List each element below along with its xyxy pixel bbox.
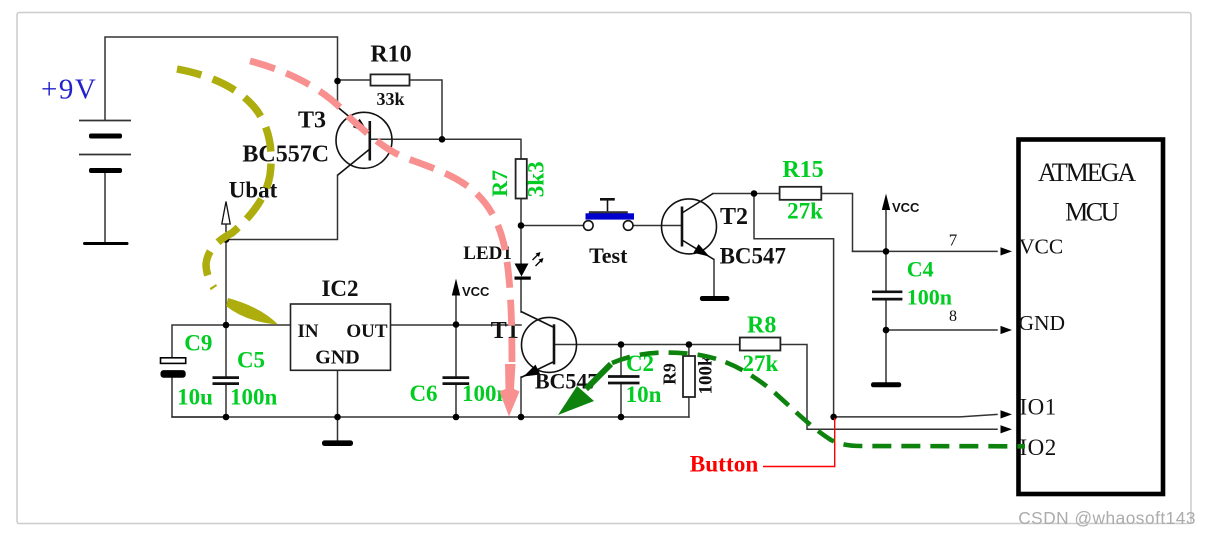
- svg-text:10u: 10u: [177, 385, 213, 410]
- capacitor C9: [161, 358, 186, 378]
- svg-text:C5: C5: [237, 348, 265, 373]
- svg-text:27k: 27k: [743, 351, 779, 376]
- svg-text:8: 8: [949, 308, 957, 325]
- svg-text:C6: C6: [409, 381, 437, 406]
- capacitor C6: [443, 378, 470, 384]
- label R7: [487, 170, 512, 197]
- wire C9 bottom: [172, 378, 225, 417]
- MCU box ATMEGA: [1019, 140, 1164, 495]
- svg-text:10n: 10n: [626, 382, 662, 407]
- svg-text:R7: R7: [487, 170, 512, 197]
- wire C6 bottom: [455, 385, 457, 417]
- node dot T3 emitter rail: [334, 78, 341, 85]
- ground below C4: [871, 382, 901, 387]
- pin arrow IO1: [1001, 410, 1013, 418]
- olive arrowhead: [226, 298, 278, 325]
- svg-text:R9: R9: [660, 363, 680, 385]
- transistor T2: [662, 194, 717, 260]
- wire C6 vcc arrow stem: [455, 295, 457, 325]
- node GND junction: [883, 327, 890, 334]
- capacitor C4: [872, 292, 902, 299]
- wire C4 bottom: [885, 301, 887, 331]
- resistor R10: [371, 74, 410, 85]
- wire T2 collector to R15: [713, 193, 780, 195]
- wire IC2 GND down: [337, 370, 339, 440]
- wire R15 right to VCC node: [821, 194, 886, 252]
- svg-text:BC557C: BC557C: [242, 142, 329, 168]
- junction IC2 GND rail: [334, 414, 341, 421]
- resistor R7: [516, 159, 527, 199]
- svg-text:Test: Test: [589, 243, 628, 268]
- node VCC junction: [883, 248, 890, 255]
- junction C6 bottom rail: [453, 414, 460, 421]
- wire VCC arrow stem at C4: [885, 206, 887, 251]
- junction C2 bottom rail: [618, 414, 625, 421]
- resistor R15: [780, 187, 822, 200]
- svg-text:100n: 100n: [907, 285, 952, 310]
- wire battery bottom lead: [104, 172, 106, 243]
- pin arrow IO2: [1001, 425, 1013, 433]
- svg-text:100k: 100k: [696, 355, 717, 395]
- wire VCC pin line: [853, 250, 998, 252]
- wire T3 base to R7 top: [370, 139, 521, 159]
- node R9 top junction: [686, 341, 693, 348]
- svg-text:27k: 27k: [787, 199, 823, 224]
- wire node R7 to Test button: [521, 225, 584, 227]
- svg-text:ATMEGA: ATMEGA: [1038, 158, 1137, 187]
- wire T1 base to R8: [554, 344, 740, 346]
- svg-text:R15: R15: [782, 157, 823, 183]
- svg-text:CSDN @whaosoft143: CSDN @whaosoft143: [1018, 508, 1196, 528]
- svg-text:IN: IN: [298, 321, 319, 342]
- svg-text:OUT: OUT: [346, 321, 388, 342]
- svg-text:C4: C4: [907, 257, 934, 282]
- resistor R8: [740, 338, 781, 351]
- transistor T1: [521, 312, 577, 378]
- svg-text:100n: 100n: [230, 385, 278, 410]
- wire IC2 OUT to T1 collector: [391, 324, 522, 326]
- wire C5 top: [225, 325, 227, 376]
- svg-text:R8: R8: [747, 313, 776, 339]
- ground below IC2: [322, 440, 353, 446]
- pin arrow GND: [1001, 326, 1013, 334]
- svg-text:VCC: VCC: [462, 284, 490, 299]
- vcc arrow at C4: [882, 194, 920, 215]
- wire C4 top: [885, 251, 887, 290]
- wire R7 bottom to LED1: [520, 199, 522, 264]
- svg-text:IC2: IC2: [321, 276, 358, 301]
- node IN junction: [223, 322, 230, 329]
- svg-text:GND: GND: [1019, 311, 1066, 335]
- wire R9 bottom: [688, 397, 690, 417]
- svg-text:R10: R10: [370, 42, 411, 68]
- pin arrow VCC: [1001, 247, 1013, 255]
- value 100k: [696, 355, 717, 395]
- svg-text:IO1: IO1: [1020, 395, 1057, 420]
- pink arrowhead: [500, 364, 520, 417]
- node OUT junction: [453, 321, 460, 328]
- svg-text:+9V: +9V: [41, 74, 97, 106]
- wire GND to ground symbol: [885, 330, 887, 382]
- svg-text:3k3: 3k3: [524, 161, 549, 197]
- olive dashed path: [177, 69, 271, 288]
- svg-text:MCU: MCU: [1065, 198, 1119, 227]
- wire left rail Ubat to IN node: [225, 240, 227, 326]
- wire R9 top: [688, 345, 690, 357]
- svg-text:T3: T3: [298, 108, 326, 134]
- wire bottom rail: [172, 416, 689, 418]
- svg-text:7: 7: [949, 231, 958, 250]
- wire T3 collector to Ubat node: [226, 175, 338, 239]
- node R7 bottom junction: [518, 222, 525, 229]
- node T2 collector junction: [751, 190, 758, 197]
- wire IO1: [834, 414, 997, 417]
- value 3k3: [524, 161, 549, 197]
- node IO1 junction: [830, 414, 837, 421]
- wire T2 emitter down: [713, 260, 715, 297]
- resistor R9: [683, 356, 695, 397]
- Ubat arrow: [222, 202, 230, 240]
- vcc arrow at C6: [452, 279, 490, 300]
- green arrowhead: [586, 364, 611, 389]
- svg-text:C9: C9: [184, 331, 212, 356]
- wire C6 top: [455, 325, 457, 376]
- wire R10 left: [338, 79, 371, 81]
- node C2 top junction: [618, 341, 625, 348]
- capacitor C5: [213, 378, 240, 384]
- LED1: [515, 252, 544, 280]
- green dashed path: [612, 353, 1025, 447]
- wire into IC2 IN: [226, 324, 291, 326]
- svg-text:GND: GND: [315, 347, 359, 369]
- Button leader line: [763, 418, 835, 467]
- svg-text:T2: T2: [720, 204, 748, 230]
- wire C2 bottom: [620, 385, 622, 418]
- junction T1 emitter rail: [518, 414, 525, 421]
- capacitor C2: [608, 377, 640, 384]
- node dot R10 right / base: [439, 136, 446, 143]
- wire R8 right to IO2: [780, 345, 997, 430]
- battery B1: [79, 121, 131, 246]
- IC2 regulator: [291, 304, 391, 370]
- transistor T3: [336, 107, 392, 175]
- label R9: [660, 363, 680, 385]
- svg-text:VCC: VCC: [1019, 235, 1063, 259]
- wire R10 right drop: [410, 80, 442, 139]
- wire LED1 cathode down: [520, 280, 522, 312]
- pink dashed path: [250, 61, 512, 362]
- wire GND pin line: [886, 329, 997, 331]
- wire T1 emitter down: [520, 377, 522, 417]
- wire C9 branch: [172, 325, 226, 358]
- node Ubat: [223, 236, 230, 243]
- wire C5 bottom: [225, 385, 227, 417]
- wire Test button to T2 base: [633, 225, 682, 227]
- wire T2 collector branch to IO1: [754, 194, 834, 417]
- svg-text:BC547: BC547: [720, 244, 786, 269]
- svg-text:Button: Button: [690, 452, 759, 478]
- switch Test: [584, 199, 635, 230]
- wire top rail: [105, 37, 338, 120]
- junction C5 bottom rail: [223, 414, 230, 421]
- wire C2 top: [620, 345, 622, 376]
- ground below T2: [700, 296, 730, 301]
- svg-text:33k: 33k: [376, 89, 404, 109]
- svg-text:VCC: VCC: [892, 200, 920, 215]
- svg-text:IO2: IO2: [1020, 435, 1057, 460]
